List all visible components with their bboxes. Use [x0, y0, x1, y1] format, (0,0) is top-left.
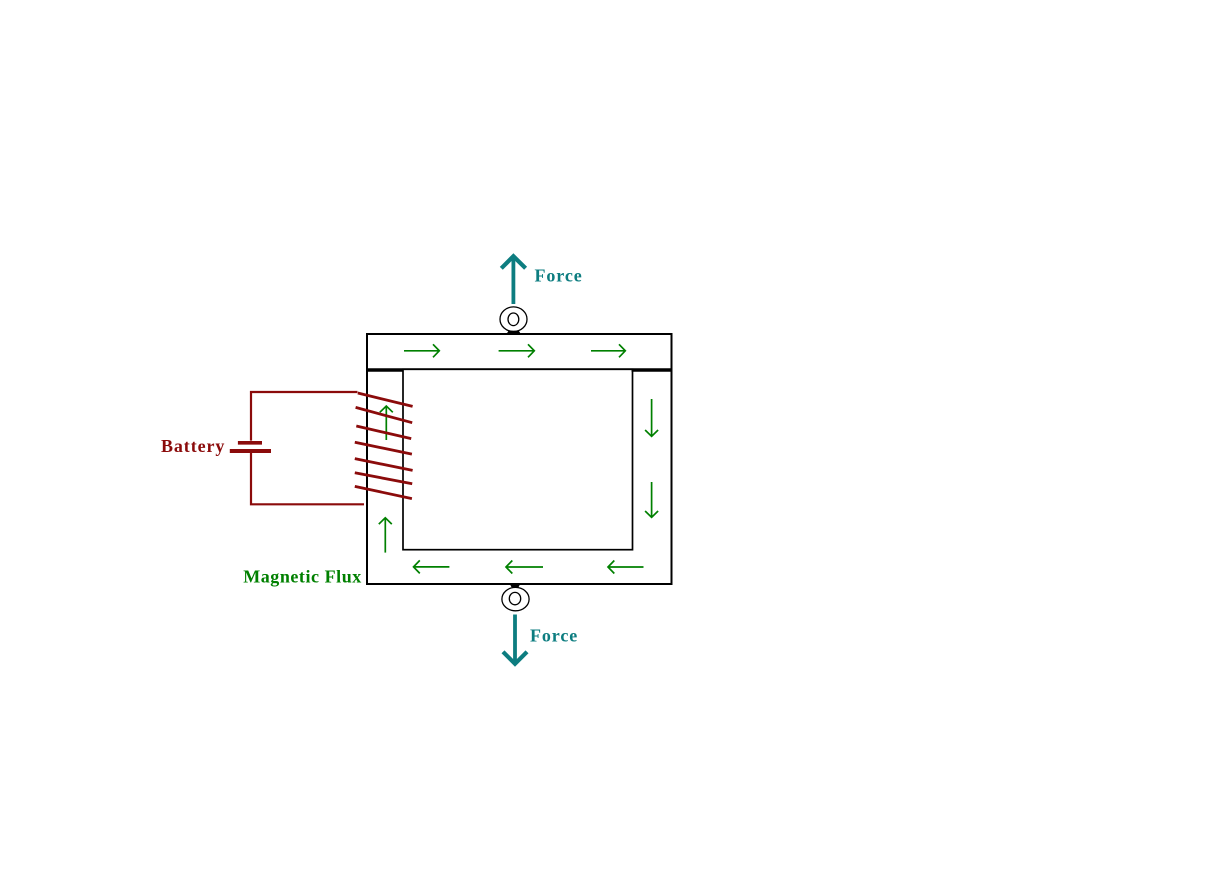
svg-text:Battery: Battery — [161, 436, 225, 456]
svg-text:Magnetic Flux: Magnetic Flux — [243, 566, 362, 586]
svg-text:Force: Force — [535, 266, 583, 286]
svg-text:Force: Force — [530, 626, 578, 646]
